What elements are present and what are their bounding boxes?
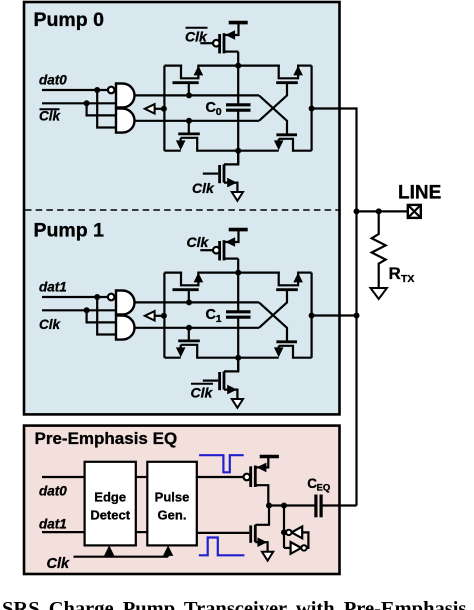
bubble EQ PMOS gate <box>244 474 251 481</box>
node upper gate tap junction pump0 <box>186 92 192 98</box>
wire capacitor bottom feed pump1 <box>237 317 239 371</box>
node pump0 output junction <box>309 106 315 112</box>
wire dat0 EQ input <box>42 476 85 478</box>
transistor clocked NMOS pump0 <box>224 151 238 165</box>
node clk junction pump0 <box>84 100 90 106</box>
wire bottom rail left pump0 <box>164 150 180 152</box>
transistor clocked PMOS pump1 <box>218 241 221 260</box>
svg-text:1: 1 <box>216 313 222 325</box>
power VDD bar EQ <box>260 455 279 459</box>
wire Clk branch to Edge Detect <box>108 550 110 557</box>
ground symbol RTX <box>371 288 387 299</box>
direction arrow annotation pump0 <box>145 104 155 113</box>
waveform positive pulse <box>199 538 245 556</box>
bubble clocked PMOS gate pump1 <box>213 247 220 254</box>
transistor lower-right pump0 <box>279 139 293 152</box>
wire bottom rail middle pump0 <box>197 150 279 152</box>
ground symbol pump0 <box>232 192 243 201</box>
wire dat1 to lower NAND input <box>97 297 116 335</box>
svg-text:Clk: Clk <box>39 109 62 124</box>
transistor upper-right pump1 <box>279 272 298 286</box>
capacitor C1 <box>226 310 251 313</box>
svg-text:Clk: Clk <box>47 556 71 572</box>
bubble clocked PMOS gate pump0 <box>213 40 220 47</box>
node lower gate tap junction pump1 <box>186 325 192 331</box>
wire Clk branch to Pulse Gen <box>167 550 169 557</box>
wire cross coupling upper-to-lower pump0 <box>259 95 287 134</box>
transistor upper-right pump0 <box>279 65 298 79</box>
NAND gate upper pump1 <box>116 291 135 315</box>
wire CEQ to rail <box>321 504 356 506</box>
wire bottom rail middle pump1 <box>197 357 279 359</box>
svg-text:dat0: dat0 <box>39 484 67 499</box>
wire upper-left gate tap pump0 <box>188 83 190 96</box>
pump block background box <box>24 2 340 414</box>
wire top node line pump0 <box>135 94 260 96</box>
node bottom rail junction pump0 <box>235 148 241 154</box>
node keeper junction <box>281 503 287 509</box>
wire cross coupling upper-to-lower pump1 <box>259 302 287 341</box>
wire bottom rail right pump0 <box>293 150 312 152</box>
wire dat0 to lower NAND input <box>97 90 116 128</box>
wire bottom rail left pump1 <box>164 357 180 359</box>
wire left frame vertical pump1 <box>163 273 165 358</box>
node bottom rail junction pump1 <box>235 355 241 361</box>
wire lower-left gate tap pump0 <box>188 121 190 134</box>
svg-text:TX: TX <box>401 273 414 285</box>
transistor clocked NMOS pump1 <box>224 358 238 372</box>
wire pump1 output <box>312 314 357 316</box>
inverting input bubble pump1 <box>108 294 115 301</box>
pre-emphasis EQ background box <box>24 426 340 574</box>
wire top node line pump1 <box>135 301 260 303</box>
node LINE junction <box>354 208 360 214</box>
wire capacitor top feed pump1 <box>237 259 239 312</box>
node top rail junction pump1 <box>235 270 241 276</box>
node keeper tap <box>281 529 287 535</box>
ground symbol pump1 <box>232 399 243 408</box>
svg-text:EQ: EQ <box>317 483 331 494</box>
wire clk input pump1 <box>42 309 116 311</box>
svg-text:Pump 1: Pump 1 <box>34 220 105 242</box>
node top rail junction pump0 <box>235 63 241 69</box>
transistor lower-left pump1 <box>181 345 198 359</box>
inverting input bubble pump0 <box>108 87 115 94</box>
svg-text:R: R <box>389 264 401 283</box>
NAND gate upper pump0 <box>116 84 135 108</box>
wire clk to lower NAND input pump1 <box>87 310 116 322</box>
node dat1 junction <box>94 294 100 300</box>
transistor clocked PMOS pump0 <box>218 34 221 53</box>
wire lower-left gate tap pump1 <box>188 328 190 341</box>
svg-text:Clk: Clk <box>39 317 62 332</box>
waveform negative pulse <box>199 455 244 472</box>
wire top rail right pump1 <box>297 272 312 274</box>
wire top rail middle pump0 <box>197 64 279 66</box>
wire output rail vertical <box>355 107 357 505</box>
wire Clk EQ <box>74 556 169 558</box>
svg-text:Pump 0: Pump 0 <box>34 9 105 31</box>
transistor lower-left pump0 <box>181 138 198 152</box>
node annotation junction pump1 <box>161 313 167 319</box>
wire left frame vertical pump0 <box>163 66 165 151</box>
node clk junction pump1 <box>84 307 90 313</box>
wire cross coupling lower-to-upper pump0 <box>259 83 287 121</box>
svg-text:LINE: LINE <box>398 183 441 204</box>
wire bottom node line pump1 <box>135 327 260 329</box>
wire Edge Detect to Pulse Gen upper <box>136 476 148 478</box>
wire dat0 input <box>42 89 108 91</box>
NAND gate lower pump1 <box>116 316 135 340</box>
transistor upper-left pump1 <box>181 272 198 286</box>
LINE port symbol <box>408 205 421 218</box>
power VDD bar pump1 <box>229 228 248 232</box>
wire to LINE port <box>357 210 408 212</box>
capacitor C0 <box>226 103 251 106</box>
power VDD bar pump0 <box>229 21 248 25</box>
svg-text:0: 0 <box>216 106 222 118</box>
svg-text:dat0: dat0 <box>39 73 67 88</box>
wire cross coupling lower-to-upper pump1 <box>259 290 287 328</box>
block Edge Detect <box>85 462 136 546</box>
node EQ driver junction <box>266 503 272 509</box>
dashed divider between Pump 0 and Pump 1 <box>25 209 339 211</box>
block Pulse Gen <box>147 462 197 546</box>
node pump1 output junction <box>309 313 315 319</box>
NAND gate lower pump0 <box>116 109 135 133</box>
figure caption (clipped at page bottom) <box>2 598 472 610</box>
svg-text:Detect: Detect <box>90 508 130 523</box>
transistor lower-right pump1 <box>279 346 293 359</box>
wire right frame vertical pump0 <box>311 66 313 151</box>
wire clocked PMOS gate pump0 <box>200 42 213 44</box>
wire top rail right pump0 <box>297 64 312 66</box>
wire clocked PMOS gate pump1 <box>200 249 213 251</box>
keeper inverter upper <box>292 527 303 539</box>
transistor EQ NMOS <box>255 506 269 525</box>
svg-text:dat1: dat1 <box>39 516 67 531</box>
node RTX junction <box>376 208 382 214</box>
wire keeper branch <box>283 506 285 548</box>
node dat0 junction <box>94 87 100 93</box>
transistor upper-left pump0 <box>181 65 198 79</box>
wire dat1 input <box>42 296 108 298</box>
wire top rail left pump1 <box>164 272 182 274</box>
direction arrow annotation pump1 <box>145 311 155 320</box>
svg-text:Clk: Clk <box>191 385 214 401</box>
wire clk to lower NAND input pump0 <box>87 103 116 115</box>
svg-text:Edge: Edge <box>94 490 126 505</box>
wire top rail left pump0 <box>164 64 182 66</box>
svg-text:dat1: dat1 <box>39 280 67 295</box>
svg-text:Clk: Clk <box>192 180 215 196</box>
wire bottom node line pump0 <box>135 120 260 122</box>
wire bottom rail right pump1 <box>293 357 312 359</box>
wire capacitor top feed pump0 <box>237 52 239 105</box>
resistor RTX <box>372 211 386 288</box>
svg-text:Clk: Clk <box>187 234 210 250</box>
wire EQ output node <box>268 504 316 506</box>
capacitor CEQ <box>314 495 317 518</box>
node upper gate tap junction pump1 <box>186 299 192 305</box>
svg-text:Clk: Clk <box>185 29 208 45</box>
wire upper-left gate tap pump1 <box>188 290 190 303</box>
wire top rail middle pump1 <box>197 272 279 274</box>
transistor EQ PMOS <box>249 466 252 487</box>
keeper inverter lower <box>291 542 302 554</box>
node annotation junction pump0 <box>161 106 167 112</box>
wire Edge Detect to Pulse Gen lower <box>136 531 148 533</box>
wire right frame vertical pump1 <box>311 273 313 358</box>
node pump1 output rail junction <box>354 313 360 319</box>
node lower gate tap junction pump0 <box>186 118 192 124</box>
wire keeper loop <box>302 532 308 548</box>
svg-text:Pre-Emphasis EQ: Pre-Emphasis EQ <box>35 429 178 448</box>
wire dat1 EQ input <box>42 531 85 533</box>
ground symbol EQ <box>262 552 273 561</box>
wire clk input pump0 <box>42 102 116 104</box>
wire capacitor bottom feed pump0 <box>237 110 239 164</box>
svg-text:Pulse: Pulse <box>155 490 190 505</box>
wire EQ PMOS gate <box>197 476 244 478</box>
svg-text:Gen.: Gen. <box>158 508 187 523</box>
wire pump0 output <box>312 107 357 109</box>
